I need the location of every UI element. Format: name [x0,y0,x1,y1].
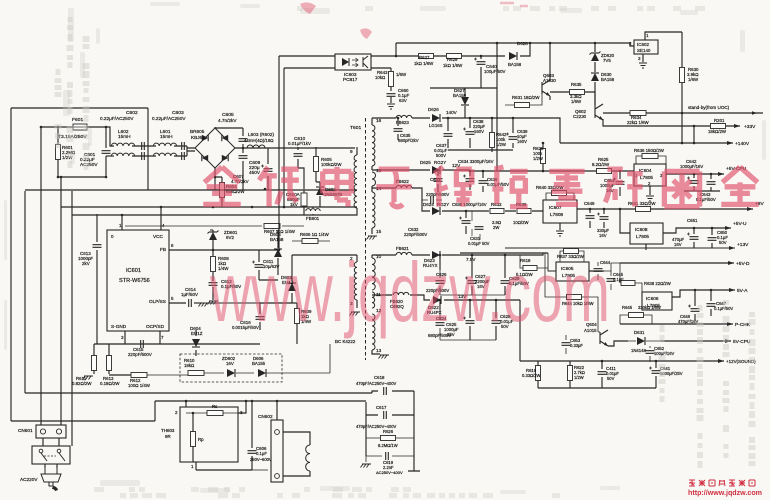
svg-text:IC601: IC601 [126,268,141,274]
svg-text:470pF/AC250V~400V: 470pF/AC250V~400V [356,381,396,386]
svg-text:AC250V: AC250V [80,162,98,167]
resistor R640 bypass [552,191,567,196]
svg-text:R629: R629 [447,57,458,62]
svg-text:OLP/SS: OLP/SS [149,299,166,304]
svg-text:16V: 16V [674,242,682,247]
svg-text:T601: T601 [350,125,361,131]
capacitor C626 [439,270,441,295]
wire x497 vertical [496,43,498,171]
degauss coil [306,445,310,471]
wire IC606 output 5V-A rail [672,290,735,297]
svg-text:13: 13 [376,348,382,353]
svg-text:160V: 160V [517,139,527,144]
wire aux rectifier verticals [259,268,292,303]
wire filter box right side [147,108,149,190]
wire snubber link [298,168,320,189]
wire IC604 gnd pin [649,186,651,195]
wire top rail y43 [396,43,634,46]
capacitor C601 [105,127,107,177]
inductor L601 top winding [153,143,176,146]
ground below C612 [208,301,219,305]
svg-text:9R: 9R [165,434,171,439]
diode D603 [291,270,293,303]
diode D628 [509,52,517,60]
resistor R610 [188,371,204,376]
ground R611 [83,376,94,380]
svg-text:44mH(4Ω)/19Ω: 44mH(4Ω)/19Ω [244,138,274,143]
wire primary bottom to FB601 [313,208,357,215]
wire 13V feed [519,300,521,361]
svg-text:1/2W: 1/2W [574,375,584,380]
inductor L602 top winding [106,127,114,146]
svg-text:L603 (R602): L603 (R602) [248,132,274,137]
resistor R601 [57,127,59,177]
svg-text:+140V: +140V [735,141,750,147]
wire secondary gnd rail y295 [440,294,505,296]
capacitor C619 [366,455,414,457]
svg-text:1/2W: 1/2W [496,142,506,147]
svg-text:A1930: A1930 [543,78,556,83]
resistor R613 [108,344,110,374]
svg-text:1kΩ 1/6W: 1kΩ 1/6W [414,61,434,66]
wire TH603 pin1 [195,462,197,470]
svg-text:R638 22Ω/2W: R638 22Ω/2W [644,281,671,286]
capacitor C654 [619,171,621,196]
wire feedback vertical x284 [283,68,285,207]
capacitor C649 [589,209,591,228]
wire IC605 input [460,253,556,271]
resistor R608 [212,250,214,278]
svg-text:50V: 50V [719,240,727,245]
ground rail C642 C643 [684,190,720,192]
zener ZD601 [212,230,214,250]
capacitor C643 [710,174,712,191]
wire aux winding link [292,255,357,303]
svg-text:BA158: BA158 [601,77,615,82]
svg-text:D624: D624 [423,202,434,207]
svg-text:D631: D631 [634,330,645,335]
transformer secondary winding 18-14 [372,172,376,186]
wire C618 line [310,391,414,393]
resistor R639 [517,209,531,214]
wire rail y189 [148,189,357,191]
wire IC608 input [620,209,630,233]
wire left border turn to TH603 [11,401,155,421]
wire pin10 line 7.5V [372,254,520,256]
svg-text:D625: D625 [420,160,431,165]
scan noise marks [68,8,74,42]
svg-text:0.1μF/50V: 0.1μF/50V [714,306,733,311]
resistor R642 [491,118,493,152]
svg-text:0.1μF: 0.1μF [256,451,267,456]
inductor L602 bottom winding [106,155,114,157]
svg-text:R627: R627 [419,55,430,60]
svg-text:1/2W: 1/2W [533,156,543,161]
capacitor C615 [141,340,144,348]
capacitor C642 [693,174,695,191]
svg-text:IC602: IC602 [637,42,649,47]
capacitor C628 [495,300,497,340]
capacitor C631 pair [472,211,480,240]
diode D622 [433,296,441,304]
resistor R645 [629,313,644,318]
svg-text:1000μF/16V: 1000μF/16V [680,164,703,169]
wire feed line y56 [396,43,530,56]
wire bridge AC inputs [187,127,215,190]
svg-text:+5V-U: +5V-U [733,221,747,227]
svg-text:R636 150Ω/2W: R636 150Ω/2W [634,148,665,153]
red site stamp bottom right chinese [689,480,695,486]
svg-text:EU1Z: EU1Z [191,331,203,336]
svg-text:1/6W: 1/6W [688,77,699,82]
svg-text:0.33μF: 0.33μF [570,343,583,348]
svg-text:50V: 50V [607,376,615,381]
ferrite bead FB601 [312,207,314,215]
wire opto left bottom [284,67,335,69]
wire IC602 pin3 [642,54,644,62]
capacitor C653 [565,335,567,354]
resistor R638 [621,281,635,286]
wire +13V rail [505,247,735,249]
wire x330 link [329,344,331,373]
svg-text:6V2: 6V2 [226,235,234,240]
svg-text:1/6W: 1/6W [571,99,582,104]
svg-text:F601: F601 [72,117,83,123]
svg-text:BA155: BA155 [252,361,266,366]
wire +12V SOUND rail [520,360,724,362]
wire IC608 gnd [645,244,647,250]
capacitor C650 [711,228,713,248]
ground after C614 [199,303,210,307]
svg-text:BA158: BA158 [508,62,522,67]
svg-text:BA158: BA158 [453,93,467,98]
capacitor C617 [366,414,414,416]
inductor L601 bottom winding [153,153,176,156]
svg-text:C618: C618 [374,375,385,380]
transformer secondary winding 11-12 [372,292,375,308]
wire +33V line [603,119,740,126]
wire Q604 emitter to 5V-CPU [608,341,628,346]
dashed box around R610 ZD602 D606 [180,354,282,382]
resistor R612 [131,373,147,378]
svg-text:8.2Ω/2W: 8.2Ω/2W [592,162,610,167]
capacitor C605 [215,128,243,148]
svg-text:L7805: L7805 [636,234,649,239]
diode D604 [195,330,197,356]
svg-text:Rs: Rs [212,404,218,409]
diode D602 [319,182,321,207]
diode D631 [637,337,645,345]
wire vcc node link [161,207,213,230]
capacitor C660 [387,94,396,97]
capacitor C645 [610,271,612,290]
wire y401 extend right [286,401,366,456]
wire rail y401 [155,400,286,402]
svg-text:L7808: L7808 [550,212,563,217]
svg-text:0.01μF/1kV: 0.01μF/1kV [288,141,311,146]
wire pin14 line [372,188,430,211]
svg-text:220pF/500V: 220pF/500V [128,352,152,357]
svg-text:8.2MΩ/1W: 8.2MΩ/1W [378,443,398,448]
resistor R643 [390,68,392,91]
svg-text:KBJ6J: KBJ6J [191,135,205,140]
svg-text:1/6W: 1/6W [396,72,407,77]
ground IC602 [639,63,647,68]
svg-text:R635: R635 [571,82,582,87]
wire pin11 line 13V [372,295,520,300]
svg-text:C630 1000μF/16V: C630 1000μF/16V [452,202,487,207]
svg-text:OCP/SD: OCP/SD [146,324,165,329]
resistor R627 [419,54,434,59]
wire IC601 pin1 drain [121,215,123,230]
resistor R637 bypass [564,249,579,254]
ferrite bead FB623 [396,115,412,118]
svg-text:18kΩ: 18kΩ [184,363,195,368]
wire IC607 gnd [559,223,561,230]
svg-text:TH603: TH603 [161,428,175,433]
wire 140V to R628 [530,118,560,143]
svg-text:16V: 16V [599,233,607,238]
capacitor C648 [603,209,605,228]
wire pin18 line 12V [372,170,597,171]
wire degauss loop bottom [283,471,310,476]
resistor R628 [542,143,544,171]
transformer secondary winding 14-15 [372,192,375,228]
capacitor C614 [189,299,192,307]
resistor R631 [515,103,530,108]
svg-text:SE140: SE140 [637,48,651,53]
transistor Q602 [595,104,603,120]
wire bottom gnd rail right [538,387,656,389]
resistor R618 [523,266,537,271]
svg-text:D626: D626 [428,107,439,112]
wire IC607 output +8V rail [577,208,753,210]
wire rail y375 [109,374,131,376]
scan bleed-through ghost rows [94,487,104,492]
wire +12V rail [460,252,548,254]
AC plug [41,468,61,482]
svg-text:C651: C651 [687,218,698,223]
svg-text:C2230: C2230 [573,114,587,119]
wire opto feed riser x396 [395,43,397,56]
transformer secondary winding 12-13 [372,314,375,350]
transformer secondary winding 10-11 [371,255,373,258]
wire B+ rail from bridge [235,147,355,149]
capacitor C607 [242,148,244,190]
capacitor C609 [267,148,269,190]
svg-text:0.22μF/AC250V: 0.22μF/AC250V [152,116,186,121]
wire +140V rail [560,142,733,144]
capacitor C625 [469,300,471,340]
wire rail y207 [61,206,357,208]
diode D623 [432,251,440,259]
bridge rectifier BR605 [195,128,235,168]
transformer T601 primary winding pin9 [356,147,358,155]
svg-text:10Ω/2W: 10Ω/2W [513,220,528,225]
diode D626 [432,114,440,122]
wire filter box bottom [25,189,148,191]
resistor R630 [681,32,683,143]
svg-text:100kΩ/2W: 100kΩ/2W [321,162,342,167]
wire right vertical x414 [408,391,420,471]
wire bottom rail extend [252,469,268,471]
svg-text:2kV: 2kV [82,261,90,266]
wire secondary ground rail y150 [448,149,513,151]
capacitor C627 [471,255,473,295]
wire IC608 output +5V-U [663,228,731,233]
svg-text:16: 16 [376,118,382,123]
wire R637 link [560,251,584,262]
optocoupler IC603 PC817 [335,54,371,70]
resistor R622 [569,361,571,388]
svg-text:18kΩ/2W: 18kΩ/2W [708,129,727,134]
wire D624 output [442,210,543,212]
svg-text:140V: 140V [446,110,458,115]
svg-text:+5V-D: +5V-D [736,261,750,267]
wire standby line [603,112,763,114]
wire opto left top [279,55,335,57]
resistor R629 [447,54,462,59]
svg-text:CN601: CN601 [18,428,33,433]
capacitor C608 before bridge [174,146,195,156]
wire pin16 line 140V [372,117,530,119]
wire x694 link [693,126,695,143]
svg-text:330kΩ 1/6W: 330kΩ 1/6W [638,305,661,310]
wire IC601 pin3 [124,331,126,344]
wire top border of filter box [11,107,148,109]
svg-text:5V-CPU: 5V-CPU [733,339,751,345]
ground pin13 [379,355,390,359]
svg-text:2W: 2W [493,225,499,230]
connector CN601 [36,425,66,438]
svg-text:100μF/50V: 100μF/50V [484,69,506,74]
wire fuse input [41,126,73,128]
svg-text:15mH: 15mH [160,134,173,139]
resistor R604 [215,177,222,207]
capacitor C638 [469,118,471,148]
svg-text:+13V: +13V [737,242,749,248]
wire +5V-CPU rail [666,173,724,175]
svg-text:R201: R201 [714,118,725,123]
capacitor C630 [465,211,467,234]
diode D625 [432,166,440,174]
wire vertical bus x72 [71,191,73,446]
transformer secondary winding 16-18 [371,118,373,125]
wire IC601 pin5 OLP [169,302,186,304]
svg-text:BC K4222: BC K4222 [335,339,356,344]
node FB dots [212,249,215,252]
thermistor TH603 box [180,407,238,462]
ferrite bead FB621 [396,252,412,255]
zener ZD620 [594,43,596,72]
wire vertical bus x61 to CN601 [60,177,62,425]
svg-text:AC250V~400V: AC250V~400V [376,470,403,475]
svg-text:4.7n/2kV: 4.7n/2kV [218,118,237,123]
capacitor C613 [96,214,98,344]
capacitor C634 [469,171,471,190]
svg-text:1kΩ 1/6W: 1kΩ 1/6W [443,63,463,68]
capacitor C635 [397,118,399,140]
capacitor C652 [649,346,651,362]
ground C660 [387,104,395,109]
svg-text:160V: 160V [474,129,484,134]
wire opto right top [371,55,396,57]
resistor R605 [315,147,317,182]
svg-text:680pF/2kV: 680pF/2kV [398,138,419,143]
IC IC604 L7805 [634,164,666,186]
svg-text:470μF/16V: 470μF/16V [678,319,699,324]
svg-text:VCC: VCC [153,234,164,239]
svg-text:63V: 63V [399,98,407,103]
resistor Rp [192,413,194,462]
svg-text:BA158: BA158 [270,237,284,242]
svg-text:0.22μF/AC250V: 0.22μF/AC250V [100,116,134,121]
resistor R609 [296,303,298,344]
resistor R634 [630,111,646,116]
capacitor C604 between windings [132,146,156,156]
capacitor C611 [258,250,260,280]
power switch box [32,446,70,464]
wire CN602 feed stub [276,401,278,420]
svg-text:22kΩ 1/6W: 22kΩ 1/6W [627,120,650,125]
diode D630 [591,73,599,81]
svg-text:IC606: IC606 [646,296,659,301]
svg-text:10kΩ: 10kΩ [375,75,386,80]
inductor L603 (R602) [247,145,265,148]
wire vertical bus x25 [24,191,26,393]
svg-text:CN602: CN602 [258,414,273,419]
transformer T601 core [365,118,367,360]
svg-text:15: 15 [376,229,382,234]
wire CN601 to switch [43,438,59,446]
IC IC601 STR-W6756 [107,230,169,331]
capacitor C646 [694,290,696,320]
diode D627 [461,97,469,105]
capacitor C411 [601,361,603,388]
IC IC607 L7808 [543,200,577,223]
capacitor C610 [297,147,299,168]
zener ZD602 [227,369,235,377]
svg-text:15mH: 15mH [118,134,131,139]
svg-text:RG2Y: RG2Y [434,160,446,165]
capacitor C641 [655,361,657,388]
svg-text:stand-by(from UOC): stand-by(from UOC) [688,105,730,110]
svg-text:C617: C617 [376,405,387,410]
wire 5V-CPU rail [660,340,731,342]
resistor R644 [567,295,582,300]
capacitor C651 [693,228,695,248]
wire rail y215 [72,214,313,216]
ferrite bead FB620 [393,292,409,295]
transistor Q603 [542,80,550,96]
capacitor C640 [480,56,482,78]
svg-text:STR-W6756: STR-W6756 [119,278,150,284]
capacitor C629 [504,255,506,295]
fuse F601 [73,124,87,130]
svg-text:D628: D628 [517,41,528,46]
svg-text:R641 33Ω/2W: R641 33Ω/2W [628,201,656,206]
resistor R607 [125,225,304,227]
wire IC602 pin1 [645,32,682,40]
node junction dots left rails [40,126,43,129]
resistor R635 [570,90,585,95]
connector CN602 [271,420,283,482]
resistor R633 [490,209,504,214]
svg-text:450V: 450V [249,170,261,175]
svg-text:R645: R645 [622,305,633,310]
capacitor C632 [422,199,442,201]
capacitor C606 [251,401,253,470]
